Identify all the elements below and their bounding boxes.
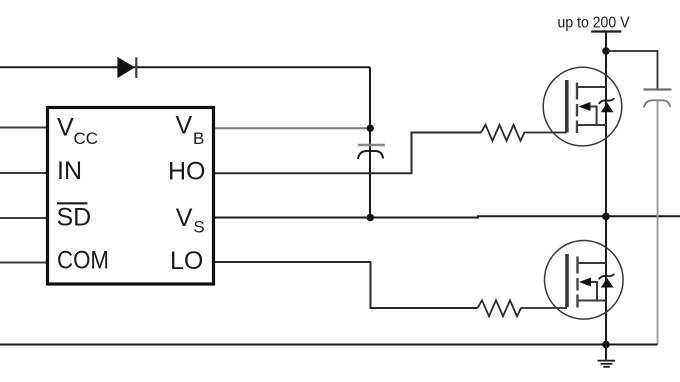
svg-text:COM: COM xyxy=(57,247,109,275)
svg-text:CC: CC xyxy=(74,129,99,148)
svg-text:HO: HO xyxy=(168,158,206,186)
svg-text:V: V xyxy=(176,204,193,232)
svg-text:LO: LO xyxy=(170,247,203,275)
svg-text:S: S xyxy=(193,218,204,237)
svg-text:up to 200 V: up to 200 V xyxy=(558,14,630,31)
svg-text:B: B xyxy=(193,129,204,148)
svg-text:V: V xyxy=(176,112,193,140)
svg-text:V: V xyxy=(57,114,74,142)
svg-text:IN: IN xyxy=(57,157,82,185)
svg-text:SD: SD xyxy=(57,204,92,232)
